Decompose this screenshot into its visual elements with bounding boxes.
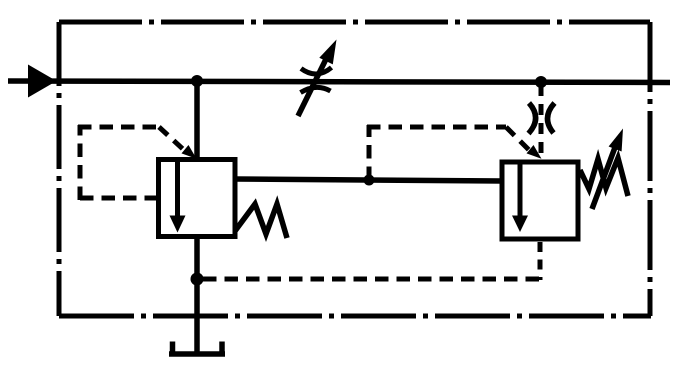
enclosure border top (dash-dot)	[59, 20, 650, 25]
valve V2 body	[502, 162, 578, 239]
pilot line: right loop vertical leg (dashed)	[367, 125, 372, 180]
valve V1 body	[159, 160, 236, 237]
pilot line: drain loop vertical up to V2 bottom (dashed)	[538, 242, 543, 280]
valve V2 spring adjust arrow	[592, 129, 623, 210]
pilot arrowhead into V2 top	[527, 145, 542, 159]
valve V2 variable spring zigzag	[580, 158, 628, 196]
pilot arrowhead into V1 top	[182, 145, 197, 159]
pilot line: drain loop horizontal (dashed)	[203, 277, 540, 282]
enclosure border bottom (dash-dot)	[59, 314, 651, 319]
junction node: supply to pilot orifice	[535, 76, 547, 88]
variable throttle valve FC (arcs + slash arrow)	[298, 40, 337, 117]
pilot line: orifice branch (dashed)	[539, 85, 544, 156]
wire: supply branch down to valve V1	[194, 81, 200, 159]
pilot line: left loop diagonal (dashed)	[159, 127, 185, 151]
valve V1 spring	[235, 204, 287, 238]
pilot line: left loop vertical leg (dashed)	[78, 125, 83, 200]
supply line P (main flow line)	[8, 81, 670, 83]
junction node on connecting line	[364, 175, 375, 186]
tank symbol	[169, 342, 225, 355]
wire: V1 outlet to V2 inlet	[235, 179, 502, 181]
enclosure border left (dash-dot)	[57, 22, 62, 316]
junction node: drain tee below V1	[191, 273, 204, 286]
pilot line: right loop diagonal (dashed)	[506, 127, 530, 151]
pilot line: left loop top leg (dashed)	[78, 125, 159, 130]
enclosure border right (dash-dot)	[648, 22, 653, 316]
input flow arrowhead	[28, 65, 57, 98]
valve V1 flow arrow	[170, 161, 186, 233]
valve V2 flow arrow	[512, 164, 528, 232]
wire: V1 bottom to tank	[194, 237, 200, 354]
pilot line: right loop top leg (dashed)	[367, 125, 506, 130]
junction node: supply to valve V1	[191, 75, 203, 87]
fixed orifice )( in pilot line	[529, 103, 555, 134]
pilot line: left loop bottom leg (dashed)	[80, 196, 158, 201]
